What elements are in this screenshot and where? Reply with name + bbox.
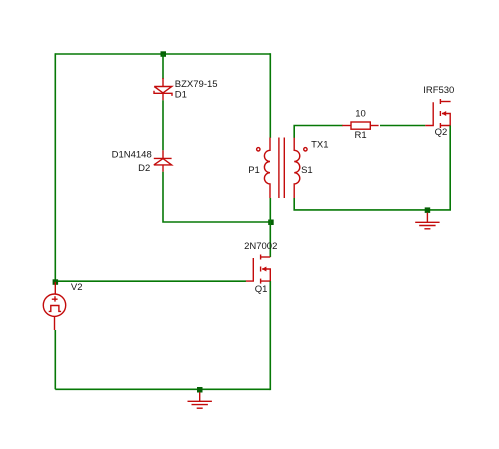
- resistor R1: [342, 122, 378, 129]
- wire drain vertical Q1: [269, 222, 271, 257]
- svg-text:2N7002: 2N7002: [244, 241, 277, 252]
- node junction top (D1 branch): [161, 51, 167, 57]
- wire D1 to D2: [162, 100, 164, 150]
- wire V2 to bottom rail: [54, 330, 56, 389]
- source V2 (pulse): [43, 282, 65, 330]
- svg-text:BZX79-15: BZX79-15: [175, 79, 218, 90]
- wire gate row from V2 to Q1: [55, 280, 246, 282]
- wire primary bottom to junction: [269, 198, 271, 222]
- svg-text:V2: V2: [71, 282, 83, 293]
- svg-text:TX1: TX1: [311, 139, 328, 150]
- svg-text:10: 10: [355, 109, 366, 120]
- svg-text:D2: D2: [138, 163, 150, 174]
- svg-text:Q2: Q2: [435, 127, 448, 138]
- wire primary top vertical: [269, 53, 271, 138]
- wire secondary bottom to Q2 source: [294, 126, 450, 210]
- svg-text:D1: D1: [175, 90, 187, 101]
- node junction primary-bottom: [268, 220, 274, 226]
- transistor Q1 (2N7002): [246, 255, 271, 284]
- svg-text:R1: R1: [355, 130, 367, 141]
- svg-text:S1: S1: [301, 165, 313, 176]
- transformer TX1 primary P1: [257, 138, 270, 199]
- node junction V2 top: [53, 279, 59, 285]
- transformer TX1 core: [279, 138, 284, 199]
- svg-text:D1N4148: D1N4148: [112, 149, 152, 160]
- transformer TX1 secondary S1: [294, 138, 307, 199]
- wire top horizontal: [55, 53, 270, 55]
- svg-text:Q1: Q1: [255, 284, 268, 295]
- wire D1 branch upper: [162, 54, 164, 79]
- node junction bottom ground: [197, 387, 203, 393]
- diode D1 (zener BZX79-15): [154, 78, 172, 100]
- diode D2 (D1N4148): [154, 150, 172, 172]
- ground bottom: [188, 392, 212, 408]
- ground right: [415, 213, 439, 229]
- transistor Q2 (IRF530): [425, 99, 450, 128]
- svg-text:P1: P1: [248, 165, 260, 176]
- svg-text:IRF530: IRF530: [423, 85, 454, 96]
- wire R1 to Q2 gate: [380, 125, 425, 127]
- wire bottom horizontal: [55, 388, 270, 390]
- wire left rail vertical: [54, 53, 56, 282]
- wire secondary top to R1: [294, 126, 342, 138]
- wire Q1 source down: [269, 281, 271, 390]
- wire D2 to bottom node: [163, 172, 271, 222]
- node junction right ground: [425, 207, 431, 213]
